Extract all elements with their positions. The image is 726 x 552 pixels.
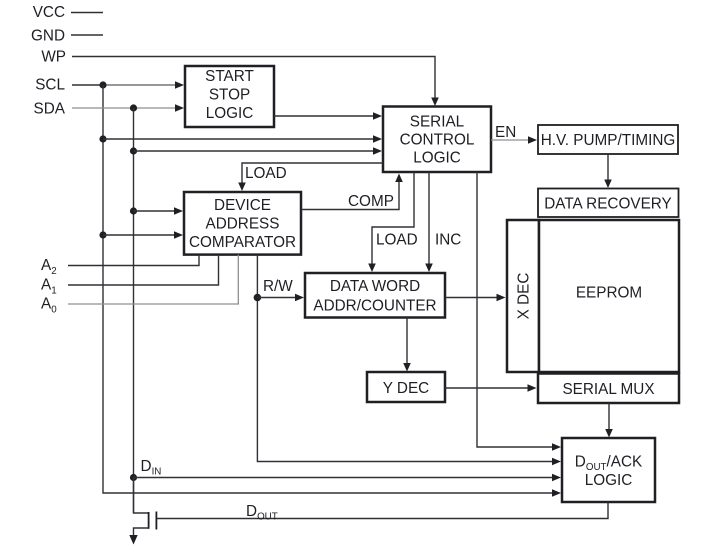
- wire SCL vertical bus down to Dout/Ack: [103, 85, 561, 497]
- wire R/W to Data Word counter: [257, 278, 304, 301]
- svg-text:A1: A1: [41, 277, 57, 297]
- svg-text:DOUT: DOUT: [246, 503, 278, 523]
- svg-text:DATA WORD: DATA WORD: [330, 278, 420, 295]
- junction SCL branch to Serial Control: [99, 135, 106, 142]
- wire SCL to Device Address Comparator: [103, 231, 183, 239]
- wire COMP from comparator to Serial Control: [301, 174, 403, 211]
- box DATA RECOVERY: [538, 189, 679, 218]
- wire SCL to Serial Control Logic: [103, 135, 382, 143]
- svg-text:GND: GND: [31, 28, 65, 45]
- svg-text:LOGIC: LOGIC: [206, 105, 254, 122]
- box SERIAL MUX: [538, 374, 679, 404]
- svg-text:DIN: DIN: [141, 458, 162, 478]
- svg-text:START: START: [205, 68, 254, 85]
- box H.V. PUMP/TIMING: [538, 125, 678, 154]
- wire SDA to Serial Control Logic: [134, 147, 383, 155]
- svg-text:LOAD: LOAD: [245, 165, 287, 182]
- svg-text:SERIAL: SERIAL: [410, 114, 464, 131]
- svg-text:EEPROM: EEPROM: [576, 285, 642, 302]
- svg-text:A2: A2: [41, 257, 57, 277]
- svg-text:DATA RECOVERY: DATA RECOVERY: [544, 196, 672, 213]
- svg-text:LOGIC: LOGIC: [585, 472, 633, 489]
- wire Start Stop output to Serial Control: [274, 112, 382, 120]
- wire LOAD from Serial Control to Data Word counter: [368, 172, 417, 272]
- wire H.V. Pump to Data Recovery: [604, 154, 612, 188]
- svg-text:X DEC: X DEC: [516, 273, 533, 320]
- svg-text:SCL: SCL: [35, 77, 65, 94]
- svg-text:STOP: STOP: [209, 87, 250, 104]
- svg-text:SERIAL MUX: SERIAL MUX: [562, 381, 654, 398]
- wire Serial Mux to Dout/Ack Logic: [605, 403, 613, 438]
- ground arrow below transistor: [129, 535, 137, 545]
- box DEVICE ADDRESS COMPARATOR: [184, 192, 301, 255]
- wire R/W from comparator down to Dout/Ack: [257, 255, 561, 466]
- svg-text:DOUT/ACK: DOUT/ACK: [575, 454, 643, 474]
- svg-text:VCC: VCC: [33, 4, 65, 21]
- wire SCL to Start Stop Logic: [103, 81, 184, 89]
- svg-text:Y DEC: Y DEC: [383, 380, 429, 397]
- wire EN to H.V. Pump: [491, 124, 537, 144]
- svg-text:COMPARATOR: COMPARATOR: [189, 234, 296, 251]
- pin GND: [31, 28, 103, 45]
- wire INC from Serial Control to Data Word counter: [425, 172, 461, 272]
- wire SDA to Start Stop Logic: [72, 104, 184, 112]
- pin SDA: [34, 101, 66, 118]
- svg-text:LOGIC: LOGIC: [413, 150, 461, 167]
- box Y DEC: [367, 372, 445, 402]
- svg-text:ADDRESS: ADDRESS: [206, 216, 280, 233]
- box X DEC: [507, 220, 539, 372]
- pin A2: [41, 255, 199, 277]
- svg-text:EN: EN: [495, 124, 516, 141]
- pin A1: [41, 255, 219, 297]
- junction SDA node: [130, 104, 137, 111]
- svg-text:LOAD: LOAD: [376, 232, 418, 249]
- pin A0: [41, 255, 238, 316]
- junction R/W node: [254, 294, 262, 302]
- pin SCL: [35, 77, 103, 94]
- svg-text:CONTROL: CONTROL: [400, 132, 475, 149]
- svg-text:DEVICE: DEVICE: [214, 197, 271, 214]
- box SERIAL CONTROL LOGIC: [383, 107, 491, 173]
- svg-text:SDA: SDA: [34, 101, 66, 118]
- junction SDA branch to comparator: [130, 207, 137, 214]
- pin WP: [41, 49, 66, 66]
- output transistor Q1: [134, 478, 157, 538]
- junction SCL node: [99, 81, 106, 88]
- svg-text:A0: A0: [41, 296, 57, 316]
- box DATA WORD ADDR/COUNTER: [305, 273, 445, 318]
- wire SDA vertical bus: [133, 108, 135, 513]
- svg-text:INC: INC: [435, 232, 461, 249]
- junction SCL branch to comparator: [99, 231, 106, 238]
- pin VCC: [33, 4, 103, 21]
- junction DIN node: [130, 474, 137, 481]
- box START STOP LOGIC: [185, 66, 274, 127]
- wire Serial Control to Dout/Ack Logic: [477, 172, 561, 451]
- svg-text:H.V. PUMP/TIMING: H.V. PUMP/TIMING: [541, 132, 676, 149]
- wire Data Word counter to Y DEC: [403, 318, 411, 372]
- wire SDA to Device Address Comparator: [134, 207, 184, 215]
- wire LOAD from Serial Control to comparator: [238, 163, 383, 191]
- svg-text:ADDR/COUNTER: ADDR/COUNTER: [313, 298, 436, 315]
- box EEPROM: [539, 220, 679, 372]
- svg-text:COMP: COMP: [348, 193, 394, 210]
- wire WP to Serial Control Logic: [72, 57, 439, 107]
- svg-text:WP: WP: [41, 49, 66, 66]
- wire DIN to Dout/Ack Logic: [134, 458, 562, 481]
- box DOUT/ACK LOGIC: [562, 438, 655, 502]
- junction SDA branch to Serial Control: [130, 147, 137, 154]
- svg-text:R/W: R/W: [263, 278, 293, 295]
- wire DOUT from Dout/Ack Logic to output transistor gate: [157, 502, 608, 523]
- wire Y DEC to Serial Mux: [445, 384, 537, 392]
- wire Data Word counter to X DEC: [445, 294, 506, 302]
